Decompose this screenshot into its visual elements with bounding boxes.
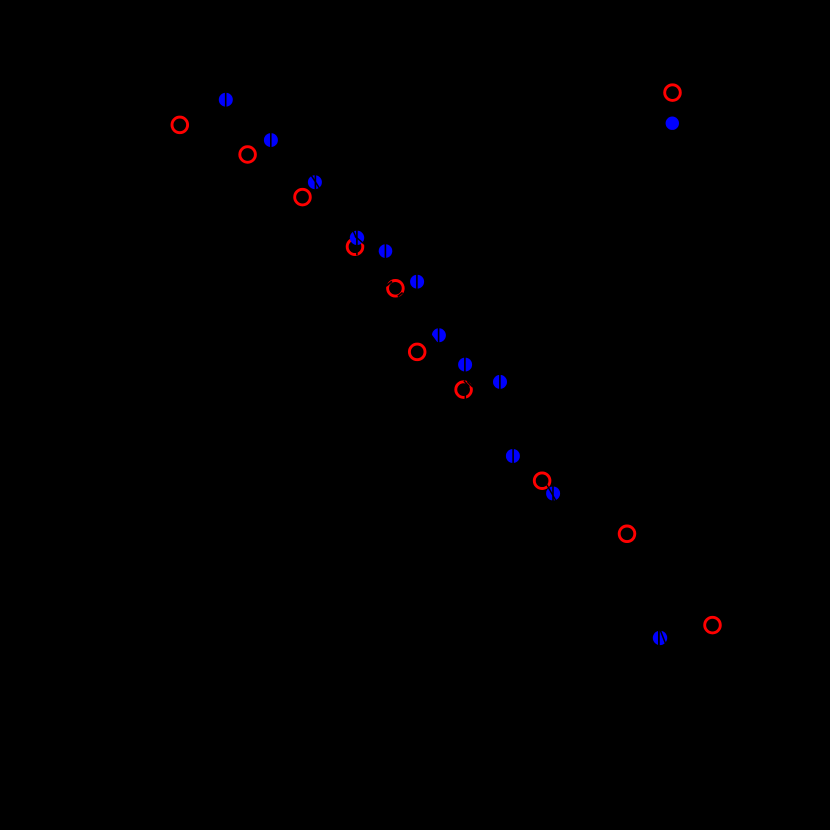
atom N11 disc — [546, 487, 560, 501]
bond slit through N8 vertical — [464, 357, 466, 373]
atom O3 ring — [295, 189, 311, 205]
atom O8 ring — [534, 473, 550, 489]
bond slit at O7 bottom vertical — [464, 395, 466, 399]
bond slit through N12 vertical — [658, 630, 660, 646]
atom N3 disc — [308, 175, 322, 189]
atom O1 ring — [172, 117, 188, 133]
atom O7 ring — [456, 382, 472, 398]
bond slit through N6 vertical — [416, 274, 418, 290]
atom O2 ring — [240, 147, 256, 163]
atom N13 disc — [666, 117, 679, 130]
bond slit through N5 vertical — [384, 243, 386, 259]
atom N12 disc — [653, 631, 667, 645]
bond slit through N1 vertical — [225, 92, 227, 108]
bond slit through N9 vertical — [499, 374, 501, 390]
atom N8 disc — [458, 358, 472, 372]
atom N1 disc — [219, 93, 233, 107]
bond slit through N3 vertical — [314, 174, 316, 190]
atom O9 ring — [619, 526, 635, 542]
double bond slit through O7 upper-right line 2 — [467, 381, 473, 387]
atom O5 ring — [388, 281, 404, 297]
double bond slit through O7 upper-right line 1 — [464, 381, 470, 387]
atom N6 disc — [410, 275, 424, 289]
bond cut at N7 lower-left — [430, 335, 436, 343]
bond slit through N2 vertical — [270, 132, 272, 148]
bond slit through N12 steep diagonal — [660, 630, 666, 645]
atom N2 disc — [264, 133, 278, 147]
bond slit through N11 vertical — [552, 486, 554, 501]
atom N7 disc — [432, 328, 446, 342]
bond slit through N4 and O4 shallow diagonal — [355, 236, 365, 244]
bond nick on O5 lower-right — [398, 293, 403, 297]
atom O10 ring — [705, 617, 721, 633]
atom O11 ring — [665, 85, 681, 101]
bond slit through N4 steep upper diagonal — [353, 230, 356, 238]
atom N10 disc — [506, 449, 520, 463]
bond slit through N3 diagonal — [311, 175, 320, 189]
bond nick on O5 upper-left — [386, 281, 392, 286]
atom O6 ring — [409, 344, 425, 360]
bond slit through N4 and O4 vertical — [356, 230, 358, 256]
bond slit through O8 and N11 diagonal — [547, 484, 556, 500]
bond slit through N7 vertical — [438, 327, 440, 343]
atom N5 disc — [379, 244, 393, 258]
bond slit through N10 vertical — [512, 448, 514, 464]
atom N9 disc — [493, 375, 507, 389]
atom N4 disc — [350, 231, 364, 245]
atom O4 ring — [347, 239, 363, 255]
